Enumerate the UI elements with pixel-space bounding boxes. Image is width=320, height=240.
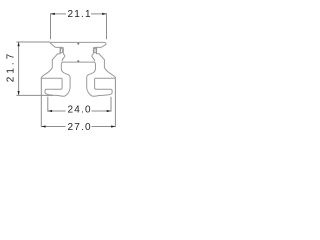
dim 21.1 arrows: [51, 13, 55, 15]
dim 21.7 line: [18, 42, 20, 95]
dim 21.7 extension line bottom: [16, 94, 53, 96]
dim 24.0 arrows: [48, 110, 52, 112]
dim 21.1 line: [51, 13, 67, 15]
svg-text:21.1: 21.1: [67, 9, 91, 20]
dim 21.7 extension line top: [16, 41, 50, 43]
dim 21.1 extension line left: [50, 13, 52, 39]
left screw-boss wall spur: [60, 47, 65, 61]
dim 21.7 arrows: [18, 42, 20, 46]
svg-text:27.0: 27.0: [67, 122, 91, 133]
left screw pocket: [61, 48, 63, 52]
extrusion profile outer contour: [41, 42, 115, 96]
dim 24.0 extension line right: [110, 97, 112, 112]
dim 27.0 line: [41, 126, 65, 128]
dim 27.0 arrows: [41, 125, 45, 127]
center nub above cavity ceiling: [77, 60, 79, 62]
dim 27.0 extension line left: [40, 79, 42, 128]
center nub on top surface: [77, 43, 79, 45]
svg-text:24.0: 24.0: [67, 105, 91, 116]
dim 21.1 extension line right: [106, 13, 108, 39]
svg-text:21.7: 21.7: [6, 51, 17, 82]
dim 24.0 extension line left: [47, 97, 49, 112]
dim 24.0 line: [48, 110, 66, 112]
right screw pocket: [94, 48, 96, 52]
right screw-boss wall spur: [92, 47, 97, 61]
dim 27.0 extension line right: [114, 79, 116, 128]
